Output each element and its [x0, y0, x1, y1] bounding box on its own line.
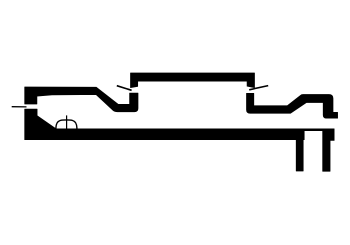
dome (hem bead) outline	[56, 120, 77, 129]
lower inner panel: left wall, wedge and long floor bar with left down-leg	[25, 109, 305, 171]
break tick at left edge	[12, 106, 27, 108]
right slash mark	[249, 86, 268, 90]
left outer panel (Z-profile with hooked end)	[25, 87, 138, 112]
centerline through dome	[66, 115, 68, 130]
left slash mark	[117, 86, 132, 91]
right outer panel (Z-profile with hooked end and foot)	[247, 93, 338, 118]
center hat rail	[131, 73, 255, 88]
upper thin sheet extending right with down-leg and head	[304, 129, 334, 172]
